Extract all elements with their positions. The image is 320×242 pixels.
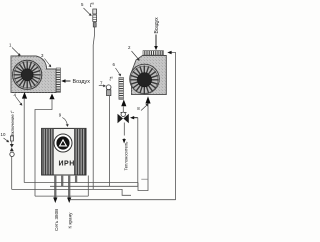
fan F1 wheel — [13, 60, 42, 89]
fan F2 wheel — [130, 64, 160, 94]
svg-text:Воздух: Воздух — [154, 17, 160, 34]
callout 4 (to F1 motor wire) — [14, 93, 23, 106]
arrow into F1 (air from below) — [22, 92, 27, 99]
valve stem (coil to valve Y1) — [122, 106, 124, 113]
air inflow arrow (left fan) — [61, 79, 70, 83]
bus h2 — [50, 185, 138, 187]
svg-text:Воздух: Воздух — [73, 79, 91, 85]
pin 3 (К крану) — [67, 175, 71, 203]
right striped band — [74, 129, 86, 175]
wire B2 down to bus h3 — [109, 96, 111, 187]
callout 7 (to sensor B2) — [99, 81, 106, 88]
callout 1 (to F1 housing) — [9, 43, 21, 57]
pipe arrow into valve Y1 (from right) — [130, 116, 138, 119]
left striped band — [42, 129, 54, 175]
pin 4 — [75, 175, 77, 183]
air arrow down into E2 — [154, 35, 158, 51]
wire v10 (valve pipe to bus h2) — [137, 118, 139, 187]
pin 5 (side wire to bus h5) — [87, 176, 89, 197]
svg-text:Включение t°: Включение t° — [10, 110, 15, 136]
svg-text:К крану: К крану — [68, 212, 73, 229]
heating coil L1 (right) — [119, 78, 124, 100]
arrow into F1 duct (control air) — [49, 94, 54, 100]
arrow up into coil L1 — [121, 100, 126, 107]
svg-text:t°: t° — [90, 3, 95, 9]
callout 9 (to U1) — [59, 113, 69, 127]
callout 10 (to valve Y2) — [1, 132, 10, 142]
svg-text:Сеть 380В: Сеть 380В — [54, 209, 59, 231]
callout 8 (to F2 motor wire) — [137, 104, 148, 112]
callout 2 (to F2 housing) — [128, 45, 140, 61]
pin 2 — [61, 175, 63, 186]
heater strip E1 (left fan inlet) — [56, 68, 60, 92]
callout 3 (to heater strip E1) — [41, 53, 51, 67]
callout 6 (to coil L1) — [113, 62, 122, 76]
svg-text:10: 10 — [1, 132, 6, 137]
logo circle — [54, 134, 72, 152]
sensor B2 (right, with motor circle) — [106, 77, 113, 96]
bus h5 — [35, 195, 88, 197]
fan F1 housing (left) — [11, 56, 56, 93]
arrow into F2 (air from below) — [145, 96, 150, 103]
temperature sensor B1 (duct, top) — [90, 3, 97, 27]
pin 1 (Сеть 380В) — [53, 175, 57, 203]
valve Y1 (кран) — [118, 112, 129, 123]
wire F1 motor to bus h1 — [23, 99, 25, 183]
heater strip E2 (right fan inlet, top) — [143, 51, 164, 55]
fan F2 housing (right) — [131, 56, 167, 95]
svg-text:Теплоноситель: Теплоноситель — [124, 142, 129, 171]
wire v12 (outer loop: damper arrow) — [167, 51, 175, 200]
bus h3 — [12, 189, 131, 195]
wire Y2 down to bus h3 — [11, 157, 13, 190]
wire sensor B1 down to bus h4 — [93, 27, 94, 189]
svg-text:ИРН: ИРН — [59, 161, 75, 168]
bus h6 — [69, 199, 175, 201]
regulator U1 (ИРН box) — [42, 128, 86, 175]
bus h1 — [24, 182, 138, 184]
valve Y2 assembly (left) — [10, 136, 14, 157]
pipe down from valve Y1 with flow arrow — [122, 123, 125, 144]
callout 5 (to sensor B1) — [81, 2, 92, 16]
wire F2 motor to bus h1 — [138, 104, 148, 191]
wire W (bus h5 up to duct arrow) — [35, 99, 52, 196]
svg-text:t°: t° — [110, 77, 113, 83]
